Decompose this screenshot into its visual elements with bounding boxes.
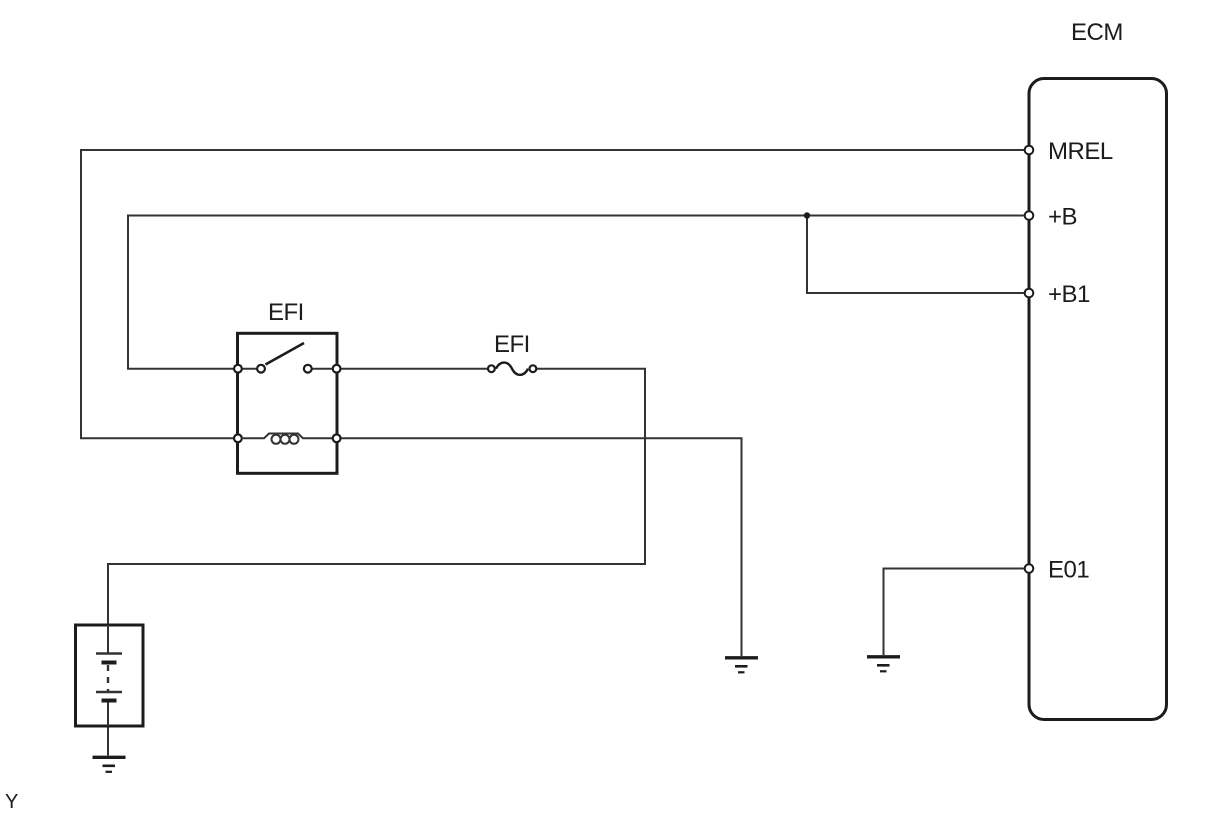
battery box bbox=[76, 625, 144, 726]
svg-text:E01: E01 bbox=[1048, 557, 1089, 584]
relay coil loop 2 bbox=[281, 435, 290, 444]
fuse terminal right bbox=[530, 365, 537, 372]
ground at E01 bbox=[867, 657, 900, 672]
wire MREL to relay coil bbox=[81, 150, 1029, 438]
wire fuse to battery positive bbox=[108, 369, 645, 625]
relay coil loop 3 bbox=[290, 435, 299, 444]
svg-text:MREL: MREL bbox=[1048, 138, 1113, 165]
relay switch terminal 4 bbox=[333, 365, 341, 373]
relay coil terminal right bbox=[333, 434, 341, 442]
relay switch terminal 2 bbox=[257, 365, 265, 373]
battery cell 2 short plate bbox=[102, 699, 117, 703]
node junction on +B wire bbox=[804, 212, 810, 218]
pin +B terminal bbox=[1025, 211, 1034, 220]
fuse EFI element wave bbox=[496, 363, 528, 375]
svg-text:+B: +B bbox=[1048, 204, 1077, 231]
relay coil winding bbox=[243, 434, 332, 439]
battery positive lead bbox=[107, 625, 109, 653]
relay switch blade bbox=[266, 343, 305, 365]
wire relay coil to ground bbox=[341, 438, 742, 656]
ground at battery bbox=[93, 757, 126, 772]
relay coil terminal left bbox=[234, 434, 242, 442]
ECM U1 box bbox=[1029, 79, 1167, 720]
svg-text:EFI: EFI bbox=[494, 331, 530, 358]
wire +B1 to junction bbox=[807, 216, 1029, 294]
relay switch terminal 3 bbox=[304, 365, 312, 373]
pin E01 terminal bbox=[1025, 564, 1034, 573]
battery cell 1 short plate bbox=[102, 661, 117, 665]
pin MREL terminal bbox=[1025, 146, 1034, 155]
battery cell 1 long plate bbox=[96, 652, 122, 654]
battery cell 2 long plate bbox=[96, 691, 122, 693]
relay coil loop 1 bbox=[272, 435, 281, 444]
fuse terminal left bbox=[488, 365, 495, 372]
wire relay switch fixed contact link bbox=[312, 368, 332, 370]
wire E01 to ground bbox=[884, 569, 1030, 656]
svg-text:+B1: +B1 bbox=[1048, 281, 1090, 308]
relay switch terminal 1 bbox=[234, 365, 242, 373]
relay K1 EFI box bbox=[238, 333, 338, 473]
svg-text:EFI: EFI bbox=[268, 299, 304, 326]
wire +B to relay switch bbox=[128, 216, 1029, 369]
battery inter-cell dashed link bbox=[107, 665, 109, 691]
svg-text:ECM: ECM bbox=[1071, 19, 1123, 46]
pin +B1 terminal bbox=[1025, 289, 1034, 298]
battery negative lead bbox=[107, 703, 109, 727]
ground at relay coil bbox=[725, 658, 758, 673]
wire relay switch to fuse bbox=[341, 368, 487, 370]
svg-text:Y: Y bbox=[5, 791, 18, 813]
wire battery negative to ground bbox=[107, 726, 109, 756]
wire relay switch terminal link 1-2 bbox=[240, 368, 259, 370]
